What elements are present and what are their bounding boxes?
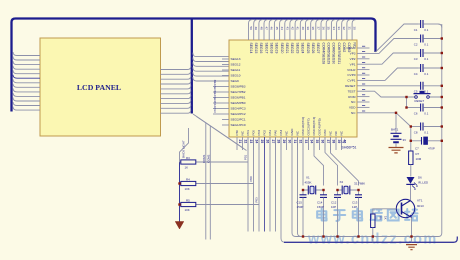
svg-text:10P: 10P — [331, 205, 336, 209]
svg-text:P00: P00 — [252, 130, 256, 136]
wire VDD diag — [396, 113, 411, 127]
U1 right pin stubs — [357, 46, 370, 113]
svg-text:SEG3/PC2: SEG3/PC2 — [231, 112, 246, 116]
wire backlight chain — [179, 162, 181, 222]
svg-text:COM7/SEG31: COM7/SEG31 — [337, 43, 341, 65]
capacitor C6 — [407, 104, 442, 116]
svg-text:SEG11: SEG11 — [231, 68, 241, 72]
wire mid bus — [191, 19, 193, 114]
wire panel diag 1 — [193, 114, 243, 148]
svg-text:COM0: COM0 — [347, 46, 356, 50]
svg-text:COM6/SEG30: COM6/SEG30 — [332, 43, 336, 65]
svg-text:150P: 150P — [317, 205, 324, 209]
svg-text:D6: D6 — [418, 176, 422, 180]
svg-text:U1: U1 — [342, 140, 347, 144]
svg-text:C7: C7 — [415, 147, 419, 151]
svg-text:NC: NC — [334, 130, 338, 135]
svg-text:SEG27: SEG27 — [316, 43, 320, 54]
svg-text:COM2: COM2 — [342, 43, 346, 53]
svg-text:0.1: 0.1 — [424, 111, 428, 115]
resistor R6 — [371, 214, 388, 242]
svg-text:47: 47 — [265, 27, 269, 31]
svg-text:35: 35 — [315, 140, 319, 144]
svg-text:31: 31 — [347, 27, 351, 31]
svg-text:37: 37 — [316, 27, 320, 31]
svg-text:32: 32 — [298, 140, 302, 144]
svg-text:31: 31 — [293, 140, 297, 144]
svg-text:10M: 10M — [416, 157, 422, 161]
svg-text:CVP1: CVP1 — [347, 79, 355, 83]
svg-text:C8: C8 — [414, 130, 418, 134]
svg-text:C4: C4 — [414, 72, 418, 76]
U1 designator — [342, 140, 357, 150]
svg-text:0.1: 0.1 — [424, 130, 428, 134]
svg-text:C2: C2 — [414, 42, 418, 46]
svg-text:NC: NC — [241, 130, 245, 135]
svg-text:SEG6/PB1: SEG6/PB1 — [231, 96, 246, 100]
svg-text:22: 22 — [243, 140, 247, 144]
svg-text:PC2: PC2 — [213, 107, 217, 113]
svg-text:36: 36 — [322, 27, 326, 31]
svg-text:NC: NC — [340, 130, 344, 135]
wire top bus — [12, 19, 376, 112]
node branch labels — [244, 154, 259, 202]
svg-text:NC: NC — [285, 130, 289, 135]
battery BAT1 — [391, 113, 407, 147]
svg-text:SEG18: SEG18 — [270, 43, 274, 54]
svg-text:1K: 1K — [185, 166, 189, 170]
svg-text:12P: 12P — [352, 205, 357, 209]
svg-text:R5: R5 — [186, 198, 190, 202]
svg-text:455K: 455K — [305, 181, 312, 185]
wire panel left bundle — [13, 52, 40, 110]
svg-text:COM5/SEG29: COM5/SEG29 — [327, 43, 331, 65]
svg-text:0.1: 0.1 — [424, 28, 428, 32]
ground battery — [389, 148, 404, 153]
svg-text:COM1: COM1 — [202, 154, 206, 163]
capacitor C13 — [352, 190, 362, 237]
svg-text:PB2: PB2 — [213, 85, 217, 91]
svg-text:45: 45 — [275, 27, 279, 31]
svg-text:39: 39 — [306, 27, 310, 31]
svg-text:NC: NC — [351, 100, 356, 104]
svg-text:32: 32 — [342, 27, 346, 31]
svg-text:PC3: PC3 — [213, 101, 217, 107]
svg-text:SEG2/PC1: SEG2/PC1 — [231, 118, 246, 122]
wire OSC2 — [314, 137, 324, 186]
svg-text:TEST: TEST — [348, 89, 356, 93]
capacitor C1 — [414, 20, 438, 32]
svg-text:SEG5/PB0: SEG5/PB0 — [231, 101, 246, 105]
svg-text:3V: 3V — [403, 138, 407, 142]
svg-text:PB1: PB1 — [213, 90, 217, 96]
svg-text:SEG21: SEG21 — [285, 43, 289, 54]
U1 bottom pin stubs — [237, 137, 342, 150]
svg-text:33: 33 — [304, 140, 308, 144]
svg-text:23: 23 — [249, 140, 253, 144]
svg-text:SEG17: SEG17 — [264, 43, 268, 54]
svg-text:P01: P01 — [244, 154, 248, 160]
svg-text:PB0: PB0 — [213, 96, 217, 102]
U1 bottom pin numbers — [238, 140, 346, 144]
wire VP1 diag — [370, 68, 419, 80]
svg-text:COM4/SEG28: COM4/SEG28 — [321, 43, 325, 65]
svg-text:NC: NC — [296, 130, 300, 135]
wire base — [373, 209, 397, 214]
svg-text:BAT1: BAT1 — [391, 128, 399, 132]
svg-text:10K: 10K — [185, 208, 190, 212]
svg-text:38: 38 — [331, 140, 335, 144]
svg-text:41: 41 — [296, 27, 300, 31]
svg-text:C12: C12 — [331, 201, 337, 205]
resistor R5 — [180, 198, 197, 212]
svg-text:P03: P03 — [255, 197, 259, 203]
svg-text:SEG24: SEG24 — [301, 43, 305, 54]
wire hang 2 — [209, 126, 211, 240]
ground backlight — [175, 222, 184, 230]
svg-text:CVP0: CVP0 — [347, 73, 355, 77]
svg-text:32.768K: 32.768K — [354, 182, 365, 186]
crystal X2 — [338, 180, 366, 195]
resistor R3 — [180, 156, 197, 170]
svg-text:IR_LED: IR_LED — [418, 181, 428, 185]
ground emitter — [406, 245, 417, 250]
svg-text:SEG14: SEG14 — [249, 43, 253, 54]
svg-text:SEG9: SEG9 — [231, 79, 240, 83]
svg-text:21: 21 — [238, 140, 242, 144]
wire U1 bottom verticals — [248, 137, 276, 232]
wire backlight feed — [180, 128, 189, 162]
svg-text:SEG7/PB2: SEG7/PB2 — [231, 90, 246, 94]
svg-text:BACK LIGHT: BACK LIGHT — [182, 140, 186, 158]
capacitor C15 — [297, 190, 307, 237]
svg-text:50: 50 — [249, 27, 253, 31]
svg-text:24: 24 — [254, 140, 258, 144]
U1 top pin labels — [249, 43, 357, 65]
svg-text:SH66P51: SH66P51 — [342, 146, 357, 150]
svg-text:SEG4/PC3: SEG4/PC3 — [231, 107, 246, 111]
capacitor C3 — [414, 49, 442, 61]
svg-text:SEG23: SEG23 — [295, 43, 299, 54]
wire bus A — [296, 24, 442, 237]
wire VDD row — [370, 112, 397, 114]
transistor VT1 — [396, 185, 424, 242]
capacitor C4 — [414, 64, 442, 76]
svg-text:www.cndzz.com: www.cndzz.com — [307, 232, 438, 248]
svg-text:RESET: RESET — [345, 84, 355, 88]
svg-text:VT1: VT1 — [417, 199, 423, 203]
svg-text:38: 38 — [311, 27, 315, 31]
U1 bottom pin labels — [235, 117, 344, 136]
svg-text:DS0: DS0 — [323, 129, 327, 135]
capacitor C5 — [370, 82, 442, 94]
svg-text:NC: NC — [351, 111, 356, 115]
svg-text:46: 46 — [270, 27, 274, 31]
svg-text:SEG1/PC0: SEG1/PC0 — [231, 123, 246, 127]
wire VP2 diag — [370, 53, 419, 64]
svg-text:R7: R7 — [416, 152, 420, 156]
node hang labels — [202, 154, 211, 163]
svg-text:0.1: 0.1 — [424, 72, 428, 76]
wire reset parallel — [406, 97, 408, 108]
svg-text:470P: 470P — [428, 147, 435, 151]
resistor R7 — [409, 141, 422, 177]
wire bus to U1 left pins — [193, 53, 229, 81]
svg-text:NC: NC — [329, 130, 333, 135]
crystal X1 — [303, 176, 324, 195]
svg-text:25: 25 — [260, 140, 264, 144]
svg-text:33: 33 — [337, 27, 341, 31]
U1 top pin numbers — [249, 27, 357, 31]
svg-text:34: 34 — [332, 27, 336, 31]
svg-text:SEG13: SEG13 — [231, 57, 241, 61]
capacitor C8 — [411, 123, 442, 135]
svg-text:R4: R4 — [186, 177, 190, 181]
svg-text:VDD: VDD — [349, 106, 356, 110]
svg-text:VP2: VP2 — [350, 57, 356, 61]
svg-text:C6: C6 — [414, 111, 418, 115]
wire panel diag 2 — [197, 117, 247, 151]
svg-text:RESET: RESET — [415, 99, 425, 103]
wire VP3 diag — [370, 39, 419, 54]
svg-text:VP3: VP3 — [350, 52, 356, 56]
svg-text:X1: X1 — [306, 176, 310, 180]
switch RESET — [407, 91, 442, 103]
svg-text:OSC3O(PF4): OSC3O(PF4) — [312, 117, 316, 136]
svg-text:SEG12: SEG12 — [231, 63, 241, 67]
op-amp U1 body — [229, 40, 357, 137]
svg-text:C14: C14 — [317, 201, 323, 205]
svg-text:PA0: PA0 — [274, 130, 278, 136]
svg-text:30: 30 — [287, 140, 291, 144]
wire OSC3 — [325, 137, 338, 186]
svg-text:SEG10: SEG10 — [231, 74, 241, 78]
svg-text:SEG15: SEG15 — [254, 43, 258, 54]
wire bus A joins — [292, 137, 302, 237]
svg-text:PA1: PA1 — [268, 130, 272, 136]
svg-text:PB3: PB3 — [213, 79, 217, 85]
U1 left pin labels — [231, 57, 246, 127]
watermark — [317, 209, 417, 221]
svg-text:VP1: VP1 — [350, 62, 356, 66]
wire gnd bus B — [281, 137, 285, 242]
svg-text:P01: P01 — [246, 130, 250, 136]
svg-text:49: 49 — [254, 27, 258, 31]
svg-text:28: 28 — [276, 140, 280, 144]
svg-text:P00: P00 — [249, 176, 253, 182]
svg-text:X2: X2 — [340, 180, 344, 184]
svg-text:C15: C15 — [297, 201, 303, 205]
wire U1 lower-left pin nets — [213, 79, 222, 114]
svg-text:LCD PANEL: LCD PANEL — [77, 83, 121, 92]
svg-text:SEG22: SEG22 — [290, 43, 294, 54]
svg-text:SEG19: SEG19 — [275, 43, 279, 54]
svg-text:OSC2I(PF7): OSC2I(PF7) — [307, 118, 311, 135]
wire COM0 diag — [376, 24, 419, 52]
svg-text:SEG8/PB3: SEG8/PB3 — [231, 85, 246, 89]
svg-text:0.1: 0.1 — [424, 42, 428, 46]
svg-text:C13: C13 — [352, 201, 358, 205]
svg-text:26: 26 — [265, 140, 269, 144]
U1 right pin labels — [345, 46, 356, 115]
svg-text:9013: 9013 — [417, 204, 424, 208]
svg-text:10K: 10K — [185, 187, 190, 191]
wire reset to pin — [370, 91, 407, 97]
svg-text:SEG16: SEG16 — [259, 43, 263, 54]
wire backlight branches — [197, 162, 260, 205]
svg-text:43: 43 — [285, 27, 289, 31]
wire OSC4 — [331, 137, 359, 186]
svg-text:0.1: 0.1 — [424, 57, 428, 61]
capacitor C14 — [317, 190, 327, 237]
svg-text:1K: 1K — [384, 216, 388, 220]
svg-text:VOLR: VOLR — [347, 68, 356, 72]
svg-text:SEG20: SEG20 — [280, 43, 284, 54]
svg-text:40: 40 — [301, 27, 305, 31]
svg-text:36: 36 — [320, 140, 324, 144]
svg-text:P30: P30 — [235, 130, 239, 136]
svg-text:C1: C1 — [414, 28, 418, 32]
LED D6 — [406, 176, 428, 190]
LCD panel — [40, 38, 161, 136]
svg-text:30: 30 — [353, 27, 357, 31]
svg-text:ROM: ROM — [348, 95, 356, 99]
svg-text:150P: 150P — [297, 205, 304, 209]
svg-text:R6: R6 — [379, 216, 383, 220]
wire hang 1 — [205, 123, 207, 240]
svg-text:R3: R3 — [186, 156, 190, 160]
svg-text:27: 27 — [271, 140, 275, 144]
svg-text:GND: GND — [290, 128, 294, 136]
svg-text:42: 42 — [290, 27, 294, 31]
svg-text:P03: P03 — [257, 130, 261, 136]
capacitor C7 — [411, 137, 442, 151]
svg-text:34: 34 — [309, 140, 313, 144]
U1 left pin stubs — [222, 59, 229, 125]
wire U1 top pins to bus — [249, 20, 357, 40]
svg-text:37: 37 — [326, 140, 330, 144]
svg-text:OSC1O(PF6): OSC1O(PF6) — [301, 117, 305, 136]
svg-text:29: 29 — [282, 140, 286, 144]
svg-text:39: 39 — [337, 140, 341, 144]
svg-text:SEG26: SEG26 — [311, 43, 315, 54]
capacitor C12 — [331, 190, 341, 237]
svg-text:44: 44 — [280, 27, 284, 31]
svg-text:COM2: COM2 — [207, 154, 211, 163]
svg-text:PA3: PA3 — [279, 130, 283, 136]
capacitor C2 — [414, 35, 442, 47]
svg-text:48: 48 — [259, 27, 263, 31]
svg-text:P02: P02 — [263, 130, 267, 136]
wire OSC1 — [302, 137, 304, 186]
resistor R4 — [180, 177, 197, 191]
wire C7 node — [410, 127, 412, 141]
wire panel right bundle — [161, 66, 191, 113]
svg-text:C3: C3 — [414, 57, 418, 61]
svg-text:SEG25: SEG25 — [306, 43, 310, 54]
svg-text:OSC4I(PF5): OSC4I(PF5) — [318, 118, 322, 135]
svg-text:35: 35 — [327, 27, 331, 31]
